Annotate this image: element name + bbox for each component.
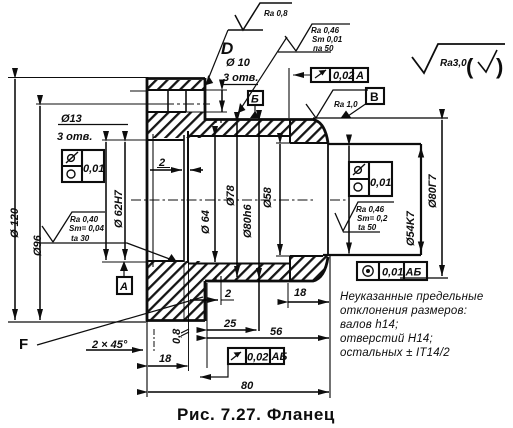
dim 18 left line — [148, 365, 188, 367]
bore bottom extension left — [102, 261, 147, 263]
datum B box — [248, 91, 263, 118]
hatch hub top wall right — [290, 120, 328, 143]
svg-text:A: A — [355, 70, 364, 82]
label D13 underline — [58, 124, 128, 126]
svg-text:18: 18 — [159, 353, 172, 365]
frame F3 leader arrow — [293, 74, 311, 76]
svg-text:Ø 120: Ø 120 — [9, 207, 21, 238]
svg-text:остальных ± IT14/2: остальных ± IT14/2 — [340, 347, 450, 359]
bore wall top right (D58) — [290, 142, 328, 144]
bolt hole bottom edge — [147, 111, 186, 113]
svg-text:Sm= 0,04: Sm= 0,04 — [69, 224, 104, 233]
frame F2 runout/roundness right — [349, 162, 392, 196]
svg-text:па 50: па 50 — [313, 44, 334, 53]
frame F5 concentricity 0.01 AB — [357, 262, 427, 280]
right bore top edge (D54K7) — [328, 143, 421, 145]
bolt hole top edge extension — [205, 89, 227, 91]
hub bottom surface — [205, 257, 328, 281]
svg-text:Ra 0,40: Ra 0,40 — [70, 215, 99, 224]
dim D58 line — [279, 144, 281, 255]
svg-text:2 × 45°: 2 × 45° — [91, 339, 128, 351]
groove wall lower extension — [183, 263, 185, 321]
dim D64 outer line — [105, 142, 107, 260]
dim D96 line — [39, 106, 41, 320]
svg-text:отверстий H14;: отверстий H14; — [340, 333, 433, 345]
dim 2 top right segment — [190, 169, 203, 171]
dim 2 bottom segment — [190, 299, 218, 301]
svg-text:tа 50: tа 50 — [358, 223, 377, 232]
svg-text:Ø96: Ø96 — [32, 234, 44, 256]
groove extension down — [220, 281, 222, 305]
svg-text:Ø78: Ø78 — [225, 184, 237, 206]
dim 18 right line — [289, 301, 330, 303]
roughness Ra0.46 mid mark — [335, 202, 394, 232]
step face at hub right upper — [289, 119, 291, 143]
leader Ra0.46 top — [238, 37, 287, 113]
disc right face upper — [204, 78, 207, 120]
svg-text:Ø80h6: Ø80h6 — [242, 203, 254, 238]
svg-text:tа 30: tа 30 — [71, 234, 90, 243]
svg-text:Ø80Г7: Ø80Г7 — [427, 173, 439, 208]
svg-text:Sm= 0,2: Sm= 0,2 — [357, 214, 388, 223]
svg-text:Ø13: Ø13 — [61, 113, 82, 125]
svg-text:(: ( — [466, 54, 474, 79]
dim 25 line — [208, 329, 257, 331]
svg-text:B: B — [370, 90, 379, 104]
bore groove left wall — [183, 135, 185, 262]
dim D80G7 line — [441, 120, 443, 276]
bore wall bottom middle — [188, 263, 290, 265]
hub outer groove bottom — [216, 276, 221, 281]
svg-text:Ra3,0: Ra3,0 — [440, 58, 467, 69]
step extension down — [287, 283, 289, 308]
svg-text:Ra 0,46: Ra 0,46 — [356, 205, 385, 214]
dim D80G7 top extension — [313, 117, 448, 119]
svg-text:D: D — [221, 39, 233, 58]
svg-text:Ø 62H7: Ø 62H7 — [113, 189, 125, 228]
dim 2 top left segment — [150, 169, 182, 171]
disc top extension line — [8, 77, 146, 79]
dim 2 bottom tail — [221, 299, 234, 301]
hatch disc middle band — [147, 112, 205, 138]
svg-text:Рис. 7.27. Фланец: Рис. 7.27. Фланец — [177, 405, 335, 424]
dim D80G7 bottom extension — [400, 277, 448, 279]
frame F4 leader — [200, 362, 228, 377]
chamfer 2x45 arrow — [86, 349, 143, 351]
F leader — [37, 297, 203, 345]
roughness Ra0.46 top mark — [278, 24, 350, 52]
leader D hole — [205, 30, 228, 87]
svg-text:A: A — [119, 281, 128, 293]
dim D80h6 line — [258, 121, 260, 331]
svg-text:AБ: AБ — [271, 351, 288, 363]
svg-text:валов h14;: валов h14; — [340, 319, 398, 331]
svg-text:0,02: 0,02 — [247, 352, 268, 364]
bore top extension left — [102, 139, 147, 141]
leader Ra0.46 top arrowhead — [238, 103, 246, 113]
dim D58 extension stubs — [276, 143, 290, 256]
svg-text:Ø58: Ø58 — [262, 186, 274, 208]
svg-text:0,8: 0,8 — [171, 328, 183, 344]
svg-text:25: 25 — [223, 318, 237, 330]
frame F3 runout 0.02 A — [311, 68, 368, 82]
svg-text:Sm 0,01: Sm 0,01 — [312, 35, 343, 44]
svg-text:Неуказанные предельные: Неуказанные предельные — [340, 291, 483, 303]
disc top face — [146, 77, 205, 80]
svg-text:18: 18 — [294, 287, 307, 299]
disc right face lower — [204, 281, 207, 321]
dim D54K7 line — [348, 146, 350, 254]
chamfer centerline mark — [153, 329, 155, 352]
datum V box — [341, 88, 384, 118]
svg-text:): ) — [496, 54, 503, 79]
general roughness small check in parens — [478, 50, 497, 72]
disc bottom extension line — [8, 321, 146, 323]
svg-text:отклонения размеров:: отклонения размеров: — [340, 305, 467, 317]
note block — [340, 291, 483, 359]
disc left face — [146, 77, 149, 321]
svg-text:Ra 1,0: Ra 1,0 — [334, 100, 358, 109]
svg-text:3 отв.: 3 отв. — [57, 131, 92, 143]
svg-text:2: 2 — [224, 288, 231, 300]
right bore end face — [420, 144, 422, 255]
svg-text:Ra 0,8: Ra 0,8 — [264, 9, 288, 18]
bolt hole centerline — [36, 103, 163, 105]
svg-text:Ø 10: Ø 10 — [226, 57, 251, 69]
right bore left face — [327, 143, 329, 256]
bore groove right wall — [187, 131, 189, 263]
hub top surface — [205, 120, 328, 144]
bolt hole top edge — [146, 89, 205, 91]
bolt hole left step face — [167, 90, 169, 112]
datum A box — [117, 261, 132, 294]
disc bottom face — [146, 319, 205, 322]
svg-text:0,02: 0,02 — [333, 70, 354, 82]
dim18 right extension — [188, 263, 190, 371]
dim D64 inner line — [214, 137, 216, 262]
roughness Ra0.40 left mark — [40, 212, 175, 261]
svg-text:0,01: 0,01 — [370, 177, 391, 189]
svg-text:Ø54K7: Ø54K7 — [405, 210, 417, 246]
dim 56 line — [208, 337, 330, 339]
bolt hole top edge left extension — [130, 90, 146, 92]
hatch disc top band — [147, 80, 205, 90]
svg-text:Ø 64: Ø 64 — [200, 210, 212, 234]
bolt hole right step face — [185, 90, 187, 112]
hatch hub top wall left — [205, 120, 290, 136]
frame F3 extension line — [288, 68, 290, 118]
svg-text:3 отв.: 3 отв. — [223, 72, 258, 84]
svg-text:AБ: AБ — [405, 267, 422, 279]
bore wall top left (D62H7) — [147, 139, 184, 141]
bore entry chamfer edge — [152, 134, 154, 267]
roughness Ra1.0 check — [306, 90, 368, 118]
frame F1 runout/roundness left — [62, 150, 104, 182]
hatch hub bottom wall left — [205, 264, 290, 281]
svg-text:F: F — [19, 336, 28, 353]
svg-text:56: 56 — [270, 326, 283, 338]
svg-text:Б: Б — [251, 94, 259, 106]
bolt hole bottom edge extension — [186, 111, 227, 113]
svg-text:0,01: 0,01 — [382, 267, 403, 279]
right bore bottom edge — [323, 254, 421, 256]
dim D54K7 edge arrows — [418, 147, 424, 252]
chamfer 0.8 mark — [181, 329, 189, 336]
dim D78 line — [236, 123, 238, 277]
dim D120 line — [14, 79, 16, 320]
bore wall bottom left — [147, 260, 184, 262]
dim 13 hole arrows — [221, 91, 223, 112]
leader Ra0.40 arrowhead — [167, 254, 177, 262]
bore wall top middle (D64) — [188, 135, 290, 137]
part axis centerline — [131, 199, 346, 201]
left face lower extension — [146, 321, 148, 397]
dim 80 line — [148, 391, 329, 393]
leader D hole arrowhead — [206, 75, 213, 85]
hatch disc bottom block — [147, 261, 205, 321]
label D10 underline — [222, 84, 258, 86]
general roughness big check — [412, 44, 505, 73]
dim D62H7 line — [124, 142, 126, 260]
step face at hub right lower — [289, 256, 291, 281]
hub outer groove top — [216, 119, 221, 123]
end face extension down — [329, 256, 331, 398]
bore wall bottom right — [290, 255, 323, 257]
frame F4 runout 0.02 AB — [228, 348, 284, 364]
roughness Ra0.8 check — [228, 3, 292, 30]
svg-text:0,01: 0,01 — [83, 163, 104, 175]
disc right face extension down — [206, 283, 208, 368]
hatch hub bottom wall right — [290, 256, 328, 281]
svg-text:80: 80 — [241, 380, 254, 392]
svg-text:Ra 0,46: Ra 0,46 — [311, 26, 340, 35]
